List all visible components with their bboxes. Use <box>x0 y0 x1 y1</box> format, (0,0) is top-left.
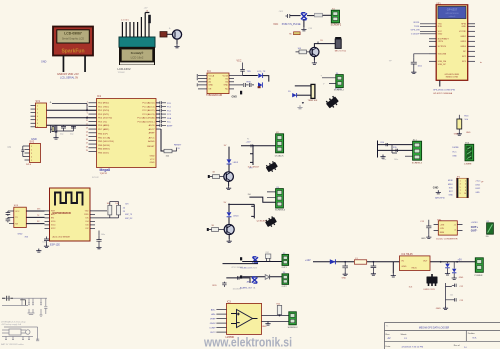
ground <box>411 70 416 74</box>
svg-text:PD0 (RXD): PD0 (RXD) <box>98 103 109 105</box>
wire <box>228 147 230 160</box>
wire <box>47 124 97 126</box>
RC filter network <box>378 141 413 158</box>
svg-text:14: 14 <box>86 131 88 133</box>
junction <box>440 261 442 263</box>
svg-text:GND: GND <box>18 234 23 236</box>
svg-text:PC2 (ADC2): PC2 (ADC2) <box>142 109 154 112</box>
svg-text:+5V: +5V <box>144 8 148 10</box>
wire <box>228 235 230 240</box>
wire <box>98 231 100 236</box>
svg-text:PD5 (T1): PD5 (T1) <box>98 121 107 123</box>
svg-text:GND3: GND3 <box>460 41 466 43</box>
svg-text:GND: GND <box>150 156 155 158</box>
svg-text:PC0 (ADC0): PC0 (ADC0) <box>142 102 154 105</box>
ground <box>452 276 457 280</box>
transistor T2 <box>224 172 234 182</box>
svg-text:102: 102 <box>450 295 453 297</box>
capacitor C4 <box>21 146 24 157</box>
svg-text:3: 3 <box>31 153 32 155</box>
svg-text:4: 4 <box>37 116 38 118</box>
transistor Q4 (SMD) <box>264 216 277 229</box>
svg-text:PC3 (ADC3): PC3 (ADC3) <box>142 113 154 116</box>
svg-text:PD7 (AIN1): PD7 (AIN1) <box>98 128 109 131</box>
svg-text:MISO: MISO <box>448 184 453 186</box>
svg-text:ADC: ADC <box>51 213 56 216</box>
svg-text:GND RX VDD +5V: GND RX VDD +5V <box>57 72 79 76</box>
capacitor C11 <box>156 120 172 124</box>
LED D9 (bidirectional) <box>252 277 258 283</box>
right pin stubs of U2 <box>90 211 119 229</box>
pin names of SV1 <box>37 105 38 128</box>
svg-text:AIN-: AIN- <box>211 313 215 316</box>
svg-text:GND: GND <box>209 85 214 87</box>
capacitor C14 <box>156 124 173 128</box>
svg-text:USB_DM: USB_DM <box>438 61 447 63</box>
resistor R4 <box>315 13 323 17</box>
svg-text:15: 15 <box>86 135 88 137</box>
svg-text:GND2: GND2 <box>460 36 466 38</box>
svg-text:10: 10 <box>464 193 466 195</box>
svg-text:OUT-: OUT- <box>471 229 478 233</box>
resistor R22 <box>277 303 282 316</box>
crystal Q1 <box>51 125 57 133</box>
wire <box>228 181 230 186</box>
wire <box>303 20 305 27</box>
resistor R6 <box>299 50 307 54</box>
resistor R5 <box>294 32 301 35</box>
svg-text:GND: GND <box>262 326 267 328</box>
svg-text:100n: 100n <box>382 159 386 161</box>
svg-text:PB4 (MISO): PB4 (MISO) <box>98 149 110 151</box>
svg-text:+3V3 backup supply 1uA: +3V3 backup supply 1uA <box>1 323 22 326</box>
svg-text:DCJACK: DCJACK <box>275 154 284 157</box>
ground <box>391 273 396 277</box>
svg-text:GND: GND <box>433 187 439 190</box>
fuse F1 <box>354 258 366 264</box>
wire <box>56 125 97 135</box>
svg-text:PC817 IN_PULSE: PC817 IN_PULSE <box>282 24 301 26</box>
svg-text:GND: GND <box>448 194 453 196</box>
svg-text:GND: GND <box>466 132 471 134</box>
svg-text:GND4: GND4 <box>460 46 466 48</box>
capacitor C12 <box>446 283 465 306</box>
svg-text:PB3 (MOSI): PB3 (MOSI) <box>98 145 110 147</box>
svg-text:4: 4 <box>31 156 32 158</box>
svg-text:1: 1 <box>37 105 38 107</box>
svg-text:LCD 16x2: LCD 16x2 <box>131 56 144 60</box>
pin stubs of SV1 <box>31 106 36 127</box>
svg-text:ISP-6: ISP-6 <box>26 164 32 166</box>
svg-text:SparkFun: SparkFun <box>61 49 84 55</box>
svg-text:RESET: RESET <box>147 146 155 148</box>
wire <box>161 129 164 151</box>
resistor R8 <box>107 202 112 218</box>
svg-text:2: 2 <box>465 180 466 182</box>
svg-text:+VIN: +VIN <box>440 224 445 226</box>
svg-text:TC1602: TC1602 <box>118 72 126 74</box>
right pin stubs of IC3 <box>262 316 289 322</box>
svg-text:7: 7 <box>37 127 38 129</box>
svg-text:V_BCKP: V_BCKP <box>411 34 420 36</box>
wire stubs to X3 <box>267 192 276 197</box>
svg-text:Date:: Date: <box>386 345 392 348</box>
+12V input cluster / connector X2 <box>241 144 276 147</box>
svg-text:AREF: AREF <box>149 132 155 135</box>
svg-text:ADC7: ADC7 <box>149 128 156 131</box>
right pin stubs of IC4 <box>229 76 243 89</box>
diode D11 <box>330 259 336 264</box>
pin stubs of SV2 <box>25 146 30 160</box>
ground <box>312 61 317 65</box>
svg-text:6: 6 <box>465 187 466 189</box>
wire <box>314 44 335 48</box>
svg-text:M.K.: M.K. <box>473 338 478 340</box>
svg-text:+5VISO: +5VISO <box>471 222 479 224</box>
svg-text:VCC: VCC <box>452 151 457 153</box>
svg-text:GND: GND <box>475 192 480 194</box>
svg-text:LCD_TX: LCD_TX <box>257 71 266 73</box>
ground <box>44 244 49 248</box>
svg-text:OUT+: OUT+ <box>471 225 479 229</box>
svg-text:17: 17 <box>86 143 88 145</box>
LCD display DIS1 (16x2) <box>119 37 155 65</box>
svg-text:ESP8266MOD: ESP8266MOD <box>53 211 71 215</box>
diode D10 <box>265 275 269 280</box>
svg-text:PD3 (INT1): PD3 (INT1) <box>98 114 109 116</box>
LED D5 <box>288 91 297 97</box>
capacitor C2 22p <box>60 125 66 135</box>
diode D2 <box>258 82 263 88</box>
wire <box>297 94 312 96</box>
capacitor C19 <box>411 57 417 70</box>
regulator IC5 (SOT223) <box>427 274 438 286</box>
capacitor C6 <box>156 105 172 109</box>
pin of LCD1 <box>63 56 65 73</box>
svg-text:5: 5 <box>31 160 32 162</box>
pin numbers left IC1 <box>86 101 88 152</box>
svg-text:LED3: LED3 <box>233 162 239 164</box>
LED D12 <box>445 262 450 272</box>
svg-text:10k: 10k <box>115 203 118 205</box>
svg-text:DC/DC CONVERTER: DC/DC CONVERTER <box>436 239 458 241</box>
capacitor C5 <box>156 101 172 105</box>
svg-text:VCC: VCC <box>273 23 278 26</box>
resistor R3 <box>164 149 172 153</box>
svg-text:11: 11 <box>86 120 88 122</box>
svg-text:PB1 (OC1A): PB1 (OC1A) <box>98 136 110 139</box>
svg-text:LCD-16X2: LCD-16X2 <box>118 67 132 71</box>
wire <box>323 14 332 16</box>
wire <box>313 261 475 263</box>
title block <box>385 323 500 349</box>
svg-text:GND: GND <box>402 266 407 268</box>
svg-text:EM406 CONN: EM406 CONN <box>446 77 459 79</box>
wire <box>392 262 394 274</box>
capacitor C27 <box>371 261 377 272</box>
svg-text:SCREW-2: SCREW-2 <box>288 327 299 329</box>
svg-text:GND2: GND2 <box>210 323 217 325</box>
svg-text:ADC6: ADC6 <box>149 124 156 127</box>
svg-text:6: 6 <box>37 123 38 125</box>
svg-text:+: + <box>169 27 171 31</box>
capacitor C23 <box>96 236 101 245</box>
svg-text:100n/63V: 100n/63V <box>233 288 242 290</box>
transistor Q3 (SMD) <box>265 160 279 173</box>
svg-text:4/13/2013 7:35:12 PM: 4/13/2013 7:35:12 PM <box>402 347 424 349</box>
pin bracket <box>251 204 254 218</box>
svg-text:RV1: RV1 <box>266 252 270 254</box>
wire <box>226 278 250 283</box>
net labels right of JP2 <box>475 181 481 194</box>
left pin stubs of IC3 <box>216 310 226 333</box>
svg-text:PC5 (ADC5/SCL): PC5 (ADC5/SCL) <box>137 120 154 123</box>
svg-text:LED1: LED1 <box>475 184 480 186</box>
svg-text:LP2950ACZ-3.3 low drop: LP2950ACZ-3.3 low drop <box>1 320 26 323</box>
wire <box>249 197 275 202</box>
svg-text:MOSI: MOSI <box>448 180 453 182</box>
terminal <box>240 91 242 95</box>
svg-text:SV1: SV1 <box>36 100 41 103</box>
svg-text:3: 3 <box>460 184 461 186</box>
svg-text:PB5 (SCK): PB5 (SCK) <box>98 152 109 154</box>
ground <box>227 239 232 243</box>
wire <box>223 263 259 265</box>
resistor R11 <box>207 225 224 231</box>
svg-text:10k: 10k <box>107 203 110 205</box>
svg-text:GND: GND <box>342 278 347 280</box>
svg-text:VDDUSB: VDDUSB <box>438 54 447 56</box>
contact mark <box>302 102 304 104</box>
svg-text:Serial Graphic LCD: Serial Graphic LCD <box>62 37 84 41</box>
svg-text:www.elektronik.si: www.elektronik.si <box>203 336 292 349</box>
svg-text:100n: 100n <box>42 242 46 244</box>
svg-text:AGND: AGND <box>148 140 155 143</box>
pin names JP2 <box>460 180 461 195</box>
ground <box>53 136 58 140</box>
capacitor C21 <box>6 217 11 222</box>
svg-text:+5V: +5V <box>458 258 463 261</box>
right pin stubs of U1 <box>468 24 475 62</box>
svg-text:VCC: VCC <box>237 61 242 63</box>
svg-text:GND: GND <box>454 133 459 135</box>
svg-text:GND: GND <box>461 26 466 28</box>
ground <box>301 27 306 31</box>
svg-text:Rev:: Rev: <box>386 334 391 336</box>
auxiliary circuit (faded) <box>1 296 47 346</box>
svg-text:OUT2: OUT2 <box>210 332 216 334</box>
svg-text:3: 3 <box>37 112 38 114</box>
wire <box>228 217 230 224</box>
wire <box>47 109 97 111</box>
svg-text:5: 5 <box>87 113 88 115</box>
wire below U1 <box>439 80 441 86</box>
svg-text:SCREW-3: SCREW-3 <box>412 163 423 165</box>
wire <box>243 75 258 77</box>
connector X8 <box>475 258 483 273</box>
svg-text:2: 2 <box>31 149 32 151</box>
LED D3 (bidirectional) <box>301 13 307 20</box>
svg-text:VCCB: VCCB <box>222 75 228 77</box>
net labels right of U2 pins <box>125 203 133 219</box>
svg-text:GND: GND <box>452 156 457 158</box>
svg-text:Frentaly®: Frentaly® <box>131 51 143 55</box>
svg-text:MIC 9.7mm: MIC 9.7mm <box>335 51 346 53</box>
IC7 (aux) <box>2 327 39 341</box>
svg-text:TXB0102DCUR: TXB0102DCUR <box>206 95 223 97</box>
svg-text:78L05: 78L05 <box>411 268 417 270</box>
capacitor C24 <box>237 276 239 280</box>
svg-text:100n: 100n <box>394 159 398 161</box>
ground <box>297 105 302 109</box>
pin names IC4 <box>209 74 215 90</box>
junction <box>86 109 88 111</box>
wire <box>242 276 282 278</box>
trimmer R7 <box>311 84 315 98</box>
svg-text:NME: NME <box>440 232 445 234</box>
wire <box>263 76 269 82</box>
svg-text:AVCC: AVCC <box>149 136 155 139</box>
left pin stubs of IC1 <box>89 103 97 152</box>
svg-text:MEGA8 GPS DATA LOGGER: MEGA8 GPS DATA LOGGER <box>419 326 450 329</box>
pin names left IC1 <box>98 103 114 155</box>
svg-text:19: 19 <box>86 150 88 152</box>
wire <box>313 57 315 61</box>
pins of DIS1 <box>122 13 149 38</box>
wire <box>176 39 178 44</box>
left pin stubs of U2 <box>45 211 50 229</box>
ground <box>371 272 376 276</box>
capacitor C25 <box>222 282 226 287</box>
svg-text:F2: F2 <box>247 138 249 140</box>
svg-text:PC1 (ADC1): PC1 (ADC1) <box>142 105 154 108</box>
svg-text:PB2 (SS/OC1B): PB2 (SS/OC1B) <box>98 141 114 143</box>
svg-text:9: 9 <box>460 193 461 195</box>
svg-text:ESP-12E: ESP-12E <box>50 243 60 246</box>
connector X7 <box>289 312 297 325</box>
pin names of SV2 <box>31 146 32 162</box>
svg-text:LED2: LED2 <box>475 188 480 190</box>
transistor Q2 (SMD) <box>325 95 340 110</box>
svg-text:u-blox 6: u-blox 6 <box>449 16 455 18</box>
svg-text:PD4 (XCK/T0): PD4 (XCK/T0) <box>98 118 112 120</box>
svg-text:1WIRE: 1WIRE <box>452 147 459 149</box>
left pin stubs of U1 <box>420 24 436 62</box>
svg-text:RXD1: RXD1 <box>414 22 421 24</box>
buzzer SP1 <box>172 30 181 39</box>
svg-text:1: 1 <box>31 146 32 148</box>
svg-text:PC4 (ADC4/SDA): PC4 (ADC4/SDA) <box>137 117 155 120</box>
pin names SV3 <box>15 211 20 226</box>
svg-text:VCC: VCC <box>150 159 155 161</box>
svg-text:OUT: OUT <box>423 260 428 262</box>
right pin stubs of IC1 <box>156 103 161 129</box>
pin stubs of SV3 <box>9 211 14 224</box>
svg-text:Sheet:: Sheet: <box>401 333 408 336</box>
svg-text:Rev of: Rev of <box>454 345 460 347</box>
capacitor C26 <box>342 261 348 272</box>
ground <box>174 44 179 48</box>
svg-text:GPS MODULE: GPS MODULE <box>445 13 459 15</box>
svg-text:ESP_TX: ESP_TX <box>125 214 133 216</box>
svg-text:TXD: TXD <box>247 71 252 73</box>
svg-text:3V3 U2: 3V3 U2 <box>92 177 100 179</box>
svg-text:IC1: IC1 <box>97 94 102 98</box>
svg-text:GP-635T: GP-635T <box>447 8 458 12</box>
wire <box>228 164 230 171</box>
svg-text:RXD: RXD <box>438 26 443 28</box>
opto output row 1 <box>240 257 242 260</box>
svg-text:AREF: AREF <box>167 124 173 127</box>
capacitor C20 <box>6 211 11 216</box>
wire <box>47 117 97 119</box>
svg-text:VCCRF: VCCRF <box>459 31 467 33</box>
LED D6 <box>227 159 239 164</box>
svg-text:GND: GND <box>436 308 441 310</box>
svg-text:ESP_RX: ESP_RX <box>125 218 133 220</box>
LED D1 <box>258 73 262 78</box>
ground <box>443 306 448 310</box>
svg-text:OUT1: OUT1 <box>282 267 287 269</box>
pin names of U2 <box>51 211 56 231</box>
svg-text:BAT 3V CR2032 holder: BAT 3V CR2032 holder <box>1 343 24 346</box>
ground <box>96 245 101 249</box>
capacitor C7 <box>156 109 172 113</box>
wire <box>307 15 314 17</box>
svg-text:GPS_EN: GPS_EN <box>411 30 420 32</box>
wire <box>295 85 312 87</box>
wire <box>167 33 172 35</box>
svg-text:PB0 (ICP): PB0 (ICP) <box>98 134 108 136</box>
svg-text:C9: C9 <box>8 145 12 149</box>
svg-text:5: 5 <box>460 187 461 189</box>
LCD module LCD1 (SparkFun serial LCD) <box>53 27 93 56</box>
capacitor C8 <box>156 112 172 116</box>
svg-text:2: 2 <box>37 109 38 111</box>
svg-text:TRIM 10K: TRIM 10K <box>308 100 318 102</box>
net labels left of SV5 <box>452 147 459 157</box>
svg-text:LM1117-3V3: LM1117-3V3 <box>424 289 436 291</box>
diode D13 <box>452 262 456 276</box>
LED D7 <box>227 212 240 217</box>
svg-text:PD1 (TXD): PD1 (TXD) <box>98 106 109 108</box>
svg-text:AVR-ISP10: AVR-ISP10 <box>435 196 445 199</box>
junction <box>86 117 88 119</box>
switch S1 <box>145 13 151 24</box>
capacitor C30 (aux) <box>2 296 13 301</box>
svg-text:OUT2: OUT2 <box>282 286 287 288</box>
svg-text:LCD-09067: LCD-09067 <box>64 32 82 36</box>
wire <box>110 201 119 203</box>
net labels left of U1 <box>411 22 421 36</box>
wire <box>52 104 87 111</box>
capacitor C13 <box>446 298 465 302</box>
svg-text:RESET: RESET <box>174 145 182 147</box>
net labels left of JP2 <box>448 180 454 196</box>
capacitor C10 <box>156 116 172 120</box>
net labels left of IC3 <box>209 308 216 334</box>
svg-text:TXD1: TXD1 <box>414 26 420 28</box>
svg-text:-VIN: -VIN <box>440 228 445 230</box>
op-amp symbol <box>231 310 258 328</box>
svg-text:USB_DP: USB_DP <box>438 64 447 66</box>
svg-text:GND: GND <box>421 238 426 240</box>
capacitor C15 <box>420 220 431 235</box>
svg-text:AIN: AIN <box>247 280 251 283</box>
svg-text:ALARM_OUT 1A: ALARM_OUT 1A <box>240 287 256 290</box>
svg-text:Mega8: Mega8 <box>100 168 111 172</box>
svg-text:7: 7 <box>460 190 461 192</box>
